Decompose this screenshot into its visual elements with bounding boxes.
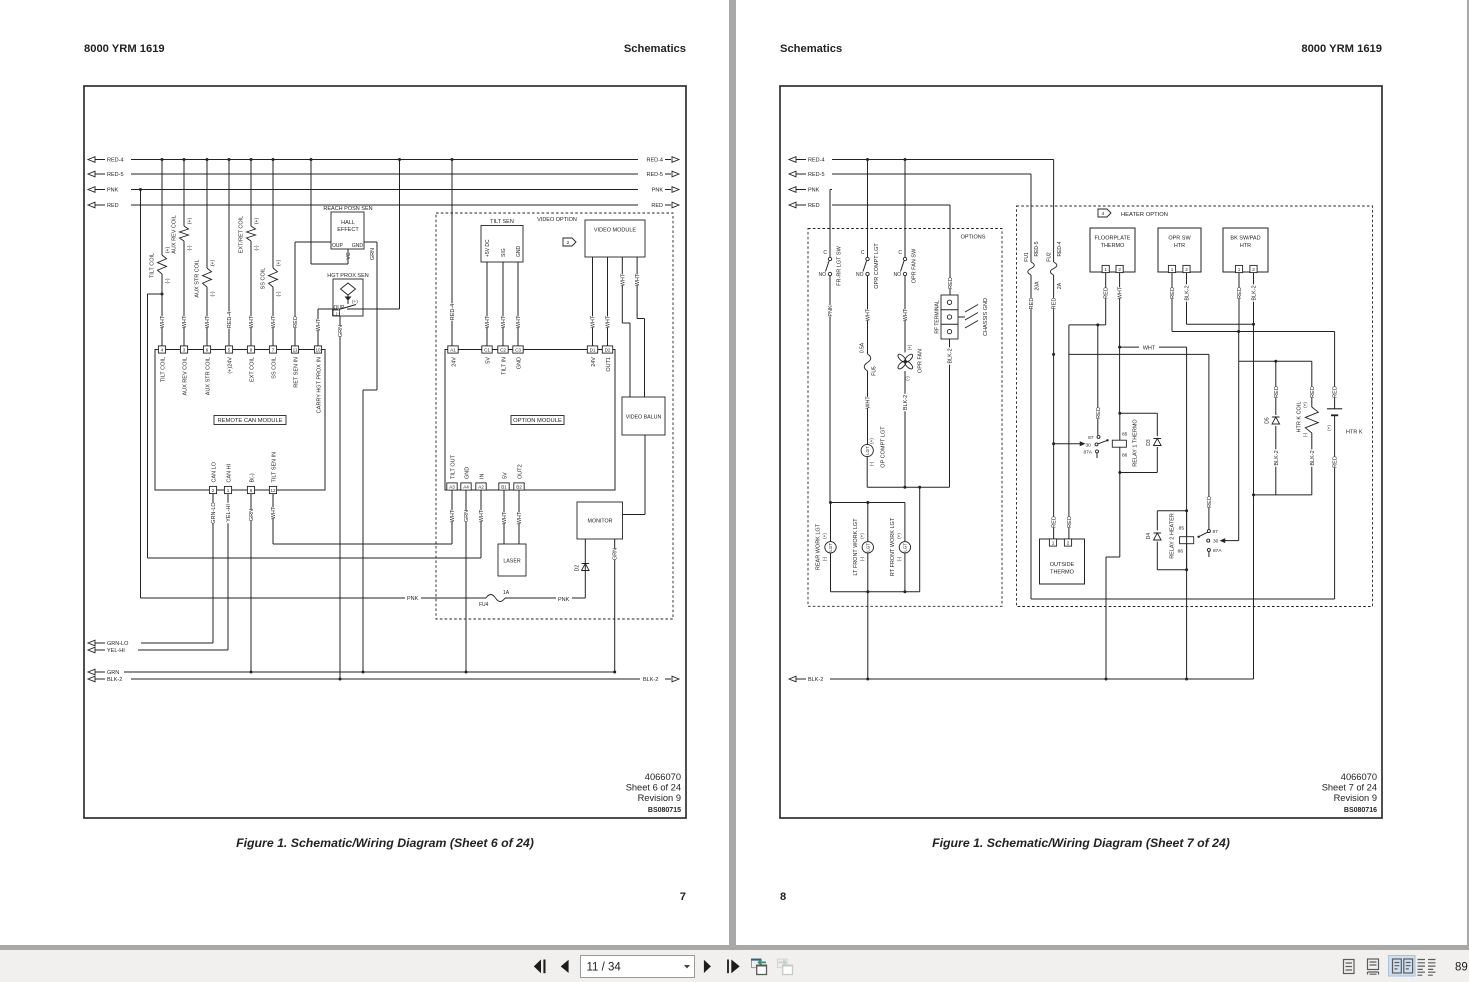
svg-text:AUX STR COIL: AUX STR COIL (205, 357, 211, 395)
svg-text:1: 1 (1052, 540, 1055, 545)
svg-text:WHT: WHT (316, 318, 322, 331)
svg-text:SS COIL: SS COIL (260, 268, 266, 290)
svg-text:WHT: WHT (1143, 345, 1156, 351)
svg-text:FU5: FU5 (871, 366, 877, 376)
svg-text:LGT: LGT (828, 543, 833, 552)
svg-text:EXT COIL: EXT COIL (249, 357, 255, 382)
svg-text:(-): (-) (897, 556, 902, 561)
svg-text:GRN: GRN (464, 510, 470, 522)
svg-text:WHT: WHT (182, 315, 188, 328)
svg-text:WHT: WHT (635, 273, 641, 286)
svg-text:GND: GND (516, 246, 522, 258)
svg-text:85: 85 (1122, 431, 1128, 437)
svg-text:RED: RED (107, 203, 119, 209)
svg-text:OPTION MODULE: OPTION MODULE (513, 418, 562, 424)
svg-text:9: 9 (206, 347, 209, 352)
svg-text:(+): (+) (165, 247, 171, 254)
svg-text:RED-5: RED-5 (646, 172, 663, 178)
svg-text:RED: RED (1052, 516, 1058, 528)
svg-text:Revision 9: Revision 9 (638, 793, 681, 803)
svg-text:BLK-2: BLK-2 (947, 348, 953, 363)
svg-text:PNK: PNK (107, 188, 119, 194)
svg-text:LGT: LGT (865, 446, 870, 455)
svg-text:BLK-2: BLK-2 (808, 677, 823, 683)
svg-text:5V: 5V (485, 357, 491, 364)
svg-text:RED: RED (1170, 287, 1176, 299)
svg-text:GRN: GRN (613, 548, 619, 560)
svg-text:RED: RED (1096, 407, 1102, 419)
svg-text:C2: C2 (500, 347, 506, 352)
svg-text:A2: A2 (478, 484, 484, 489)
svg-text:WHT: WHT (605, 315, 611, 328)
svg-text:2A: 2A (1057, 282, 1063, 289)
svg-text:D1: D1 (590, 347, 596, 352)
svg-text:RT FRONT WORK LGT: RT FRONT WORK LGT (890, 517, 896, 576)
svg-text:C3: C3 (515, 347, 521, 352)
svg-text:GND: GND (516, 357, 522, 369)
svg-text:OUT1: OUT1 (606, 357, 612, 372)
svg-text:TILT COIL: TILT COIL (149, 253, 155, 278)
svg-text:NO: NO (894, 272, 902, 278)
svg-text:RED-4: RED-4 (450, 304, 456, 321)
svg-text:PNK: PNK (808, 188, 820, 194)
svg-text:30: 30 (1086, 442, 1092, 448)
svg-text:LGT: LGT (902, 543, 907, 552)
svg-text:WHT: WHT (271, 315, 277, 328)
svg-text:YEL-HI: YEL-HI (226, 504, 232, 522)
svg-text:RED: RED (293, 316, 299, 328)
svg-text:87: 87 (1088, 435, 1094, 441)
svg-text:12: 12 (270, 488, 276, 493)
svg-text:PNK: PNK (558, 597, 570, 603)
svg-text:FR-RR LGT SW: FR-RR LGT SW (836, 245, 842, 285)
svg-text:(-): (-) (254, 245, 260, 250)
svg-text:1A: 1A (503, 590, 510, 596)
svg-text:PNK: PNK (407, 596, 419, 602)
svg-text:LT FRONT WORK LGT: LT FRONT WORK LGT (853, 518, 859, 576)
svg-text:(-): (-) (859, 556, 864, 561)
svg-text:BLK-2: BLK-2 (903, 395, 909, 410)
svg-text:C: C (898, 250, 902, 256)
svg-text:11 / 34: 11 / 34 (587, 962, 622, 974)
svg-text:8: 8 (250, 347, 253, 352)
svg-text:FU1: FU1 (1024, 252, 1030, 262)
svg-text:RED: RED (651, 203, 663, 209)
svg-text:1: 1 (1171, 267, 1174, 272)
svg-text:OUTSIDE: OUTSIDE (1050, 562, 1075, 568)
svg-text:HTR K COIL: HTR K COIL (1296, 402, 1302, 433)
svg-text:+5V DC: +5V DC (485, 239, 491, 257)
svg-text:AUX STR COIL: AUX STR COIL (194, 259, 200, 297)
svg-text:CHASSIS GND: CHASSIS GND (983, 298, 989, 336)
svg-text:WHT: WHT (590, 315, 596, 328)
svg-text:(-): (-) (905, 376, 910, 381)
svg-text:A4: A4 (463, 484, 469, 489)
svg-text:CARRY HGT PROX IN: CARRY HGT PROX IN (316, 357, 322, 413)
svg-text:MONITOR: MONITOR (588, 519, 613, 525)
svg-text:EFFECT: EFFECT (337, 227, 359, 233)
svg-text:WHT: WHT (865, 396, 871, 409)
svg-text:(-): (-) (1303, 432, 1308, 437)
svg-text:(-): (-) (210, 291, 216, 296)
svg-text:Sheet 6 of 24: Sheet 6 of 24 (626, 783, 681, 793)
svg-text:HTR: HTR (1240, 243, 1251, 249)
svg-text:RED: RED (1207, 496, 1213, 508)
svg-text:D2: D2 (574, 565, 580, 572)
svg-text:24V: 24V (451, 357, 457, 367)
svg-text:D3: D3 (1146, 439, 1152, 446)
svg-text:THERMO: THERMO (1101, 243, 1126, 249)
svg-text:CAN LO: CAN LO (211, 461, 217, 482)
svg-text:RED: RED (1104, 287, 1110, 299)
svg-text:IN: IN (479, 473, 485, 479)
svg-text:REAR WORK LGT: REAR WORK LGT (815, 523, 821, 570)
svg-text:Sheet 7 of 24: Sheet 7 of 24 (1322, 783, 1377, 793)
svg-text:HTR K: HTR K (1346, 430, 1363, 436)
svg-text:WHT: WHT (479, 509, 485, 522)
svg-text:(+): (+) (254, 218, 260, 225)
svg-text:0.5A: 0.5A (859, 342, 865, 353)
svg-text:87A: 87A (1083, 450, 1092, 456)
svg-text:FU4: FU4 (479, 602, 489, 608)
svg-text:WHT: WHT (903, 308, 909, 321)
svg-text:8000 YRM 1619: 8000 YRM 1619 (84, 43, 165, 55)
svg-text:20A: 20A (1034, 281, 1040, 291)
svg-text:(-): (-) (822, 556, 827, 561)
svg-text:OUT2: OUT2 (517, 464, 523, 479)
svg-text:RED: RED (1029, 298, 1035, 310)
svg-text:RED: RED (1052, 298, 1058, 310)
svg-text:4066070: 4066070 (645, 772, 681, 782)
svg-text:PNK: PNK (828, 305, 834, 317)
svg-text:VIDEO MODULE: VIDEO MODULE (594, 228, 637, 234)
svg-text:WHT: WHT (501, 315, 507, 328)
svg-text:Revision 9: Revision 9 (1334, 793, 1377, 803)
svg-text:2: 2 (212, 488, 215, 493)
svg-text:BS080715: BS080715 (648, 807, 681, 814)
svg-text:RELAY 1 THERMO: RELAY 1 THERMO (1132, 419, 1138, 467)
svg-text:WHT: WHT (516, 315, 522, 328)
svg-text:(-): (-) (165, 278, 171, 283)
svg-text:THERMO: THERMO (1050, 570, 1075, 576)
svg-text:A1: A1 (450, 347, 456, 352)
svg-text:RED: RED (1067, 516, 1073, 528)
svg-text:(+): (+) (1327, 425, 1332, 431)
svg-text:1: 1 (1238, 267, 1241, 272)
svg-text:LGT: LGT (865, 543, 870, 552)
svg-text:OPR SW: OPR SW (1168, 236, 1191, 242)
svg-text:GRN: GRN (338, 325, 344, 337)
svg-text:8000 YRM 1619: 8000 YRM 1619 (1301, 43, 1382, 55)
svg-text:RED: RED (1333, 456, 1339, 468)
svg-text:WHT: WHT (249, 315, 255, 328)
svg-text:(-): (-) (276, 291, 282, 296)
svg-text:B2: B2 (516, 484, 522, 489)
svg-text:7: 7 (680, 891, 686, 903)
svg-text:HALL: HALL (341, 220, 355, 226)
svg-text:GRN-LO: GRN-LO (107, 641, 129, 647)
svg-text:OPR COMPT LGT: OPR COMPT LGT (874, 243, 880, 289)
svg-text:D5: D5 (1264, 417, 1270, 424)
svg-text:WHT: WHT (271, 506, 277, 519)
svg-text:(-): (-) (187, 245, 193, 250)
svg-text:RED: RED (1274, 386, 1280, 398)
svg-text:30: 30 (1213, 539, 1219, 545)
svg-text:GND: GND (464, 467, 470, 479)
svg-text:BK SW/PAD: BK SW/PAD (1230, 236, 1260, 242)
svg-text:(+): (+) (897, 533, 902, 539)
svg-text:BLK-2: BLK-2 (1310, 450, 1316, 465)
svg-text:WHT: WHT (502, 511, 508, 524)
svg-text:C: C (861, 250, 865, 256)
svg-text:B1: B1 (501, 484, 507, 489)
svg-text:4: 4 (161, 347, 164, 352)
svg-text:RED-4: RED-4 (646, 158, 663, 164)
svg-text:GND: GND (352, 243, 364, 249)
svg-text:REMOTE CAN MODULE: REMOTE CAN MODULE (217, 418, 282, 424)
svg-text:GRN: GRN (249, 509, 255, 521)
svg-text:(+): (+) (352, 299, 358, 304)
svg-text:(-): (-) (336, 310, 341, 315)
svg-text:Figure 1. Schematic/Wiring Dia: Figure 1. Schematic/Wiring Diagram (Shee… (932, 836, 1230, 850)
svg-text:OP COMPT LGT: OP COMPT LGT (880, 426, 886, 468)
svg-text:WHT: WHT (1118, 286, 1124, 299)
svg-text:RED: RED (1237, 287, 1243, 299)
svg-text:2: 2 (1067, 540, 1070, 545)
svg-text:OUP: OUP (332, 243, 344, 249)
svg-text:BLK-2: BLK-2 (107, 677, 122, 683)
svg-text:HEATER OPTION: HEATER OPTION (1121, 212, 1168, 218)
svg-text:(+): (+) (276, 260, 282, 267)
svg-text:GRN-LO: GRN-LO (211, 502, 217, 524)
svg-text:11: 11 (293, 347, 298, 352)
svg-text:WHT: WHT (450, 509, 456, 522)
svg-text:WHT: WHT (517, 511, 523, 524)
svg-text:5V: 5V (502, 472, 508, 479)
svg-text:FU2: FU2 (1046, 252, 1052, 262)
svg-text:RED: RED (1310, 386, 1316, 398)
svg-text:BLK-2: BLK-2 (1251, 285, 1257, 300)
svg-text:24V: 24V (591, 357, 597, 367)
svg-text:85: 85 (1179, 526, 1185, 532)
svg-text:A3: A3 (449, 484, 455, 489)
svg-text:GRN: GRN (370, 248, 376, 260)
svg-text:RELAY 2 HEATER: RELAY 2 HEATER (1169, 513, 1175, 559)
svg-text:TILT OUT: TILT OUT (450, 454, 456, 479)
svg-text:RED-4: RED-4 (808, 158, 825, 164)
svg-text:3: 3 (183, 347, 186, 352)
svg-text:VIDEO BALUN: VIDEO BALUN (626, 415, 662, 421)
svg-text:BS080716: BS080716 (1344, 807, 1377, 814)
svg-text:Schematics: Schematics (624, 43, 686, 55)
svg-text:FLOORPLATE: FLOORPLATE (1095, 236, 1131, 242)
svg-text:WHT: WHT (205, 315, 211, 328)
svg-text:SS COIL: SS COIL (271, 357, 277, 379)
svg-text:7: 7 (272, 347, 275, 352)
svg-text:(+): (+) (210, 260, 216, 267)
svg-text:TILT COIL: TILT COIL (160, 357, 166, 382)
svg-text:86: 86 (1122, 453, 1128, 459)
svg-text:B(-): B(-) (249, 473, 255, 482)
svg-text:RED: RED (808, 203, 820, 209)
svg-text:HTR: HTR (1174, 243, 1185, 249)
svg-text:8: 8 (780, 891, 786, 903)
svg-text:OPR FAN: OPR FAN (917, 349, 923, 373)
svg-text:BLK-2: BLK-2 (1274, 450, 1280, 465)
svg-text:C: C (823, 250, 827, 256)
svg-text:D4: D4 (1146, 533, 1152, 540)
svg-text:SIG: SIG (501, 248, 507, 257)
svg-text:TILT SEN: TILT SEN (490, 219, 514, 225)
svg-text:2: 2 (1185, 267, 1188, 272)
svg-text:NO: NO (856, 272, 864, 278)
svg-text:(+): (+) (1303, 402, 1308, 408)
svg-text:86: 86 (1178, 548, 1184, 554)
svg-text:1: 1 (1104, 267, 1107, 272)
svg-text:AUX REV COIL: AUX REV COIL (182, 357, 188, 396)
svg-text:GRN: GRN (107, 670, 119, 676)
svg-text:BLK-2: BLK-2 (1184, 285, 1190, 300)
svg-text:RED: RED (1333, 386, 1339, 398)
svg-text:TILT IN: TILT IN (501, 357, 507, 375)
svg-text:D2: D2 (605, 347, 611, 352)
svg-text:OPTIONS: OPTIONS (961, 235, 986, 241)
svg-text:WHT: WHT (620, 273, 626, 286)
svg-text:YEL-HI: YEL-HI (107, 648, 125, 654)
svg-text:VC: VC (346, 252, 352, 259)
svg-text:(+): (+) (187, 218, 193, 225)
svg-text:EXT/RET COIL: EXT/RET COIL (238, 216, 244, 254)
svg-text:WHT: WHT (160, 315, 166, 328)
svg-text:87: 87 (1213, 529, 1219, 535)
svg-text:6: 6 (250, 488, 253, 493)
svg-text:(+): (+) (907, 344, 912, 350)
svg-text:RF TERMINAL: RF TERMINAL (934, 300, 940, 333)
svg-text:CAN HI: CAN HI (226, 463, 232, 482)
svg-text:(-): (-) (869, 461, 874, 466)
svg-text:PNK: PNK (652, 188, 664, 194)
svg-text:RED: RED (948, 277, 954, 289)
svg-text:REACH POSN SEN: REACH POSN SEN (323, 206, 372, 212)
svg-text:RED-5: RED-5 (1034, 241, 1040, 256)
svg-text:1: 1 (227, 488, 230, 493)
svg-text:RED-4: RED-4 (1057, 241, 1063, 256)
svg-text:4: 4 (1102, 211, 1105, 217)
svg-text:WHT: WHT (865, 308, 871, 321)
svg-text:2: 2 (567, 240, 570, 246)
svg-text:RED-4: RED-4 (227, 312, 233, 329)
svg-text:TILT SEN IN: TILT SEN IN (271, 452, 277, 483)
svg-text:RED-5: RED-5 (808, 172, 825, 178)
svg-text:Schematics: Schematics (780, 43, 842, 55)
svg-text:HGT PROX SEN: HGT PROX SEN (327, 273, 368, 279)
svg-text:10: 10 (315, 347, 321, 352)
svg-text:(+): (+) (859, 533, 864, 539)
svg-text:(+)24V: (+)24V (227, 357, 233, 374)
svg-text:(+): (+) (869, 438, 874, 444)
svg-text:2: 2 (1118, 267, 1121, 272)
svg-text:Figure 1. Schematic/Wiring Dia: Figure 1. Schematic/Wiring Diagram (Shee… (236, 836, 534, 850)
svg-text:RED-5: RED-5 (107, 172, 124, 178)
svg-text:4066070: 4066070 (1341, 772, 1377, 782)
svg-text:5: 5 (228, 347, 231, 352)
svg-text:VIDEO OPTION: VIDEO OPTION (537, 217, 577, 223)
svg-text:89: 89 (1455, 962, 1468, 974)
svg-text:LASER: LASER (503, 559, 521, 565)
svg-text:RED-4: RED-4 (107, 158, 124, 164)
svg-text:RET SEN IN: RET SEN IN (293, 357, 299, 388)
svg-text:87A: 87A (1213, 548, 1222, 554)
svg-text:BLK-2: BLK-2 (643, 677, 658, 683)
svg-text:(+): (+) (822, 533, 827, 539)
svg-text:2: 2 (1252, 267, 1255, 272)
svg-text:OPR FAN SW: OPR FAN SW (911, 248, 917, 283)
svg-text:NO: NO (819, 272, 827, 278)
svg-text:AUX REV COIL: AUX REV COIL (171, 215, 177, 254)
svg-text:WHT: WHT (485, 315, 491, 328)
svg-text:C1: C1 (484, 347, 490, 352)
